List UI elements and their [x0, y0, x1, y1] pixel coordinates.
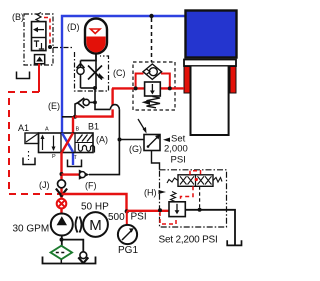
envelope 3 solenoid hatches — [77, 135, 93, 142]
accumulator D — [85, 19, 107, 54]
svg-text:PSI: PSI — [171, 155, 186, 166]
check valve (bypass) in flow control — [80, 61, 82, 89]
tank under pump — [43, 257, 96, 264]
adjustment arrow + Set text — [163, 138, 170, 143]
tank bracket below valve B enclosure — [17, 72, 30, 79]
valve B spring at top — [36, 13, 41, 22]
wire: blue supply line from valve port A up and right to cylinder cap end — [62, 16, 185, 133]
pump — [51, 214, 73, 236]
pilot annotation arrow to (G) — [138, 119, 145, 131]
left solenoid box — [25, 133, 39, 144]
valve B pilot box with triangle — [35, 55, 45, 64]
node: junction on blue line — [149, 14, 153, 18]
(C) valve square — [145, 82, 161, 96]
svg-text:(H): (H) — [144, 188, 157, 198]
cylinder rod-side fluid left (red) — [184, 67, 190, 94]
cylinder load block (blue) — [186, 11, 237, 58]
wire: red dashed pilot at valve B top right — [44, 18, 50, 47]
envelope 1 arrows — [43, 136, 54, 151]
wire: red pilot line from valve B bottom down-left-down to pump line — [38, 64, 40, 92]
svg-text:B: B — [76, 127, 80, 133]
spring bumps under right box — [79, 144, 95, 153]
(C) check valve diamond — [143, 64, 162, 79]
wire: red pump line up to P port — [60, 152, 62, 200]
valve B body — [32, 22, 46, 51]
cylinder rod-side fluid right (red) — [230, 67, 236, 94]
tank bracket below T port — [68, 160, 82, 167]
(H) enclosure dash-dot — [160, 170, 227, 227]
check valve E — [78, 98, 85, 108]
wire: black line from H square to tank — [185, 210, 235, 245]
svg-text:(B): (B) — [12, 12, 24, 22]
wire: red branch to check F — [62, 173, 80, 175]
svg-text:A1: A1 — [18, 123, 29, 133]
wire: red discharge line right — [62, 194, 127, 211]
wire: flow control bottom — [81, 87, 96, 89]
valve B enclosure (dash-dot) — [24, 14, 53, 65]
spring left of pilot valve — [167, 178, 178, 183]
valve body: two envelopes — [39, 133, 94, 153]
wire: black dashed pilot from blue line down to (C) — [151, 18, 153, 62]
coupling between pump and motor — [76, 217, 78, 233]
wire: black line from E over red (hop) down to (F) — [89, 101, 95, 103]
black dashed from valve to line — [199, 186, 201, 210]
node dots on red — [134, 86, 138, 90]
svg-text:500: 500 — [108, 212, 125, 223]
(C) spring below — [147, 97, 161, 108]
wire: branch right to return check — [62, 240, 84, 252]
node below J — [60, 193, 64, 197]
svg-text:50 HP: 50 HP — [81, 202, 109, 213]
svg-text:(G): (G) — [129, 144, 142, 154]
crossed flow lines in envelope 2 — [62, 133, 73, 152]
wire: red stub to pump — [60, 209, 62, 214]
valve B top section arrow (left) — [36, 29, 45, 31]
wire: black from blue line junction to node left of check E — [62, 103, 78, 117]
spring above H square — [171, 192, 177, 202]
needle / flow control valve — [95, 61, 97, 89]
(C) counterbalance enclosure — [133, 62, 175, 110]
wire: G vent down — [152, 151, 160, 170]
electric motor — [83, 212, 108, 237]
wire: accumulator stem — [81, 53, 97, 61]
relief valve G — [144, 135, 160, 151]
svg-text:A: A — [45, 127, 49, 133]
tank bottom right — [227, 240, 241, 245]
node on enclosure left — [158, 208, 162, 212]
(H) relief square — [169, 202, 185, 217]
drain dashes below left solenoid — [28, 151, 30, 160]
svg-text:(E): (E) — [48, 101, 60, 111]
svg-text:30 GPM: 30 GPM — [13, 224, 50, 235]
check valve J — [58, 180, 66, 188]
wire: red from node to valve B1 port and up to (C) — [75, 88, 113, 116]
valve B bottom section blocked ports — [34, 41, 39, 47]
red X circle (isolator) — [57, 199, 67, 209]
svg-text:Set 2,200 PSI: Set 2,200 PSI — [159, 235, 218, 246]
cylinder piston band — [184, 60, 236, 67]
svg-text:2,000: 2,000 — [164, 144, 188, 155]
node: pilot junction right of valve B — [48, 45, 52, 49]
cylinder rod / barrel — [191, 67, 229, 136]
svg-text:P: P — [52, 154, 56, 160]
wire: red main line through (C) valve — [112, 87, 184, 89]
svg-text:PSI: PSI — [131, 212, 147, 223]
svg-text:B1: B1 — [88, 122, 99, 132]
svg-text:(J): (J) — [39, 180, 50, 190]
small return check valve — [80, 252, 87, 259]
wire: blue tank line below valve T port — [72, 152, 74, 165]
wire: pump suction down to strainer — [61, 236, 63, 247]
node: branch to F — [60, 172, 64, 176]
(C) red loop around check — [136, 74, 170, 89]
node — [93, 86, 97, 90]
(H) pilot valve (2-position) — [178, 175, 213, 187]
svg-text:PG1: PG1 — [118, 245, 138, 256]
wire: down to check valve E level — [94, 88, 96, 102]
svg-text:(C): (C) — [113, 68, 126, 78]
svg-text:(D): (D) — [67, 22, 80, 32]
svg-text:M: M — [89, 217, 102, 234]
svg-text:(A): (A) — [96, 135, 108, 145]
red dashed vent paths inside enclosure — [160, 212, 176, 224]
flow control enclosure (dash-dot) — [53, 47, 72, 49]
suction strainer (green diamond) — [51, 246, 72, 260]
spring right of pilot valve — [213, 178, 222, 183]
gauge PG1 — [118, 225, 137, 244]
tank bracket below left solenoid — [23, 158, 35, 165]
node: branch to (G) — [118, 138, 122, 142]
svg-text:(F): (F) — [85, 181, 97, 191]
check valve F — [79, 170, 90, 180]
